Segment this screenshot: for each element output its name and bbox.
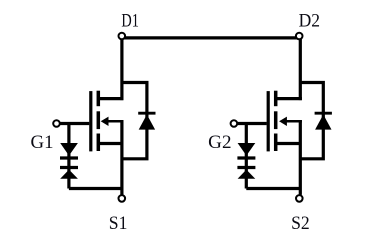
terminal G1 xyxy=(53,120,60,127)
wire G2 protection stack stem xyxy=(245,124,248,189)
diode ZD1a (gate protection, cathode down) xyxy=(60,143,78,158)
svg-text:S2: S2 xyxy=(291,213,310,234)
wire Q1 protection-to-source xyxy=(69,187,122,190)
terminal D1 xyxy=(119,33,126,40)
wire Q2 body-diode branch xyxy=(300,83,323,159)
wire G1 gate lead xyxy=(57,122,90,125)
diode Q1 body diode xyxy=(138,113,155,129)
terminal S1 xyxy=(119,195,126,202)
wire G1 protection stack stem xyxy=(67,124,70,189)
wire Q1 drain lead xyxy=(98,97,123,100)
svg-text:S1: S1 xyxy=(109,213,128,234)
transistor Q1 body arrow xyxy=(101,117,124,126)
wire Q2 source lead xyxy=(276,142,301,145)
diode Q2 body diode xyxy=(315,113,332,129)
diode ZD2a (gate protection, cathode down) xyxy=(237,143,255,158)
svg-text:G1: G1 xyxy=(31,132,54,153)
terminal S2 xyxy=(296,195,303,202)
transistor Q2 channel segments xyxy=(274,91,278,151)
wire Q1 body/source stem xyxy=(120,120,123,195)
wire Q2 drain lead xyxy=(276,97,302,100)
svg-text:G2: G2 xyxy=(208,132,231,153)
transistor Q1 gate bar xyxy=(89,91,92,151)
terminal D2 xyxy=(296,33,303,40)
terminal G2 xyxy=(231,120,238,127)
transistor Q2 gate bar xyxy=(267,91,270,151)
wire Q1 source lead xyxy=(98,142,122,145)
svg-text:D1: D1 xyxy=(121,11,138,32)
wire G2 gate lead xyxy=(234,122,267,125)
transistor Q2 body arrow xyxy=(279,117,302,126)
wire Q1 body-diode branch xyxy=(122,83,147,159)
wire Q2 body/source stem xyxy=(299,120,302,195)
diode ZD2b (gate protection, cathode up) xyxy=(237,168,255,179)
transistor Q1 channel segments xyxy=(97,91,101,151)
wire D2 drain stem xyxy=(299,38,302,100)
svg-text:D2: D2 xyxy=(299,11,320,32)
wire D1 drain stem xyxy=(120,38,123,100)
wire top bus D1-D2 xyxy=(122,36,299,39)
diode ZD1b (gate protection, cathode up) xyxy=(60,168,78,179)
wire Q2 protection-to-source xyxy=(246,187,300,190)
